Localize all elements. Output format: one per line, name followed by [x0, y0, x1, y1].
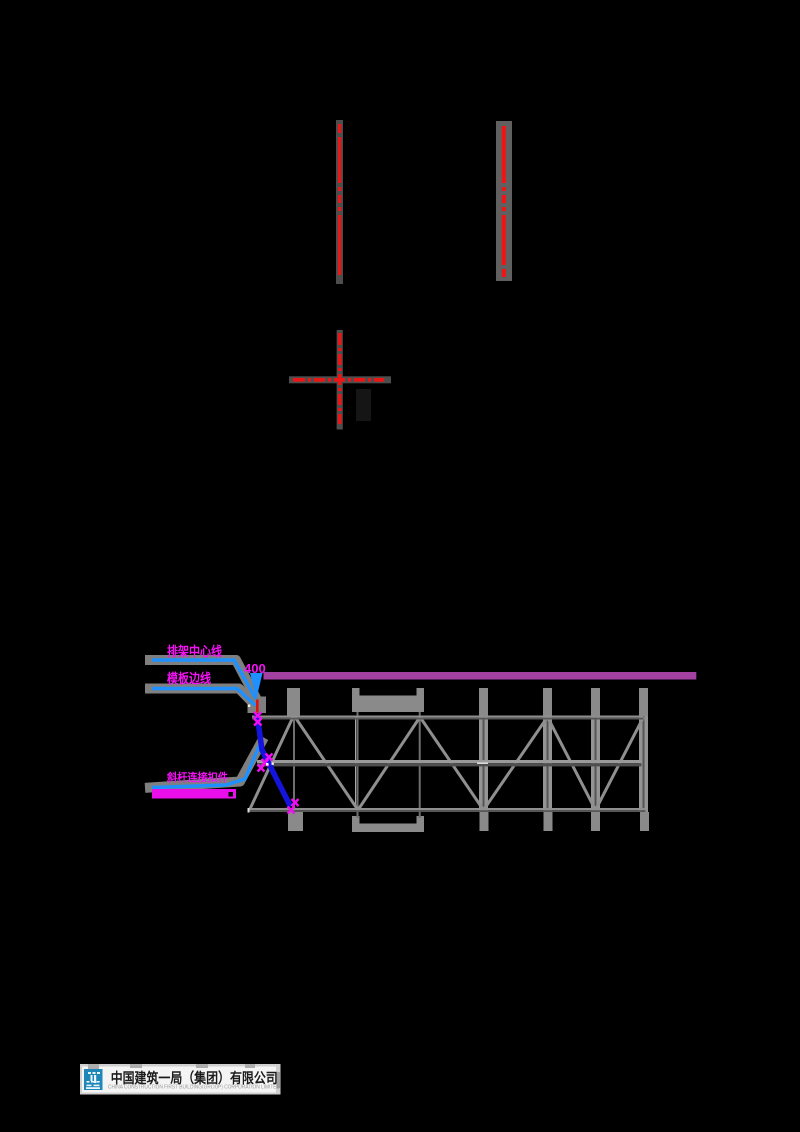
band corner shade	[88, 1064, 255, 1069]
stub halo above chord at post7	[639, 688, 648, 716]
top chord light	[252, 716, 644, 718]
dark blue brace line	[257, 714, 291, 807]
band post6 between chords	[591, 716, 600, 812]
svg-text:CHINA CONSTRUCTION FIRST BUILD: CHINA CONSTRUCTION FIRST BUILDING(GROUP)…	[108, 1085, 280, 1091]
top bracket body	[352, 688, 424, 712]
grip X top pair	[254, 712, 262, 726]
leader 1 arrowhead	[250, 673, 263, 699]
red node dash	[256, 700, 259, 713]
mid rail light	[257, 760, 642, 763]
leader 3 halo	[150, 742, 262, 788]
leader 2 halo	[150, 689, 256, 707]
faint rect near center mark	[356, 389, 371, 421]
thin vertical post2	[357, 712, 359, 818]
logo band inner	[82, 1067, 276, 1093]
leader 2 line	[152, 689, 256, 706]
band post7 between chords	[639, 716, 648, 812]
grip hole in bar	[229, 792, 234, 797]
centerline B halo	[496, 121, 512, 281]
white tick bottom chord left end	[248, 808, 250, 813]
svg-text:斜杆连接扣件: 斜杆连接扣件	[166, 770, 228, 784]
logo band outer	[80, 1064, 281, 1095]
node halo rect	[248, 697, 267, 714]
grip X bottom pair	[288, 799, 299, 814]
white tick mid rail crossing	[477, 762, 488, 764]
bottom chord dark	[250, 810, 646, 812]
svg-text:模板边线: 模板边线	[167, 671, 211, 686]
centerline A halo	[336, 120, 343, 284]
center mark halo vertical	[337, 330, 343, 430]
thin vertical post1	[293, 716, 295, 811]
diagonal 5	[484, 717, 548, 810]
diagonal 2	[295, 717, 358, 810]
stub halo below chord at post4	[480, 812, 489, 831]
white node mid	[266, 763, 269, 766]
stub halo below chord at post7	[640, 812, 649, 831]
centerline B	[502, 126, 506, 278]
white node apex	[248, 705, 251, 708]
grip X mid cluster	[258, 754, 273, 772]
stub halo above chord at post4	[479, 688, 488, 716]
stub halo below chord at post5	[544, 812, 553, 831]
bottom chord light	[250, 808, 646, 810]
purple line	[264, 672, 697, 680]
svg-text:400: 400	[244, 661, 266, 676]
diagonal 7	[596, 717, 644, 810]
stub halo below chord at post6	[591, 812, 600, 831]
center mark halo horizontal	[289, 376, 391, 383]
top chord dark	[252, 718, 644, 720]
magenta thick bar	[152, 789, 236, 799]
diagonal 3	[358, 717, 420, 810]
thin vertical post6	[595, 716, 597, 811]
center mark vertical line	[338, 333, 342, 426]
leader 1 line	[152, 660, 256, 699]
logo emblem marks	[86, 1072, 100, 1089]
band post5 between chords	[543, 716, 552, 812]
bottom bracket body	[352, 816, 424, 832]
diagonal 6	[548, 717, 596, 810]
leader 1 halo	[150, 660, 257, 700]
leader 3 line	[152, 742, 261, 788]
mid rail dark	[257, 763, 642, 766]
white accent post2	[355, 717, 357, 810]
diagonal 1	[250, 717, 294, 810]
stub halo above chord at post6	[591, 688, 600, 716]
centerline A	[338, 124, 341, 277]
blue logo square	[84, 1069, 103, 1090]
center mark horizontal line	[293, 378, 388, 382]
thin vertical post4	[483, 716, 485, 811]
stub halo above chord at post5	[543, 688, 552, 716]
thin vertical post3	[419, 712, 421, 818]
stub halo below chord at post1	[288, 812, 303, 831]
thin vertical post5	[547, 716, 549, 811]
svg-text:排架中心线: 排架中心线	[167, 644, 222, 659]
diagonal 4	[420, 717, 484, 810]
stub halo above chord at post1	[287, 688, 300, 716]
band post4 between chords	[479, 716, 488, 812]
white node mid2	[272, 763, 274, 765]
thin vertical post7	[643, 716, 645, 811]
